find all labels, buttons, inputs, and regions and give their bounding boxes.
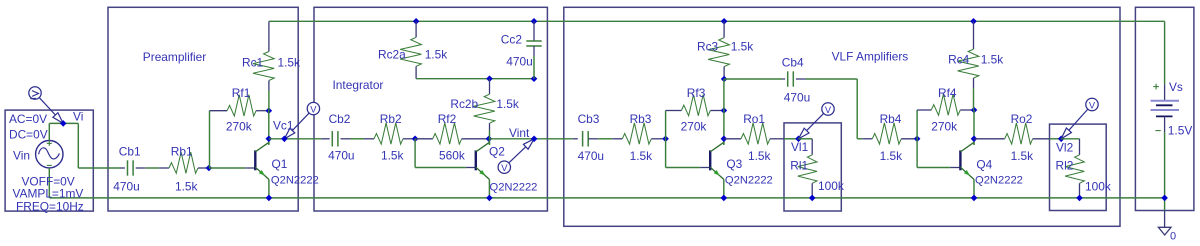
- wire Rf3 left leg: [665, 111, 667, 139]
- resistor Rc2b: [489, 79, 491, 95]
- wire Q4 base drop: [916, 139, 918, 168]
- wire Vcc top rail: [269, 20, 1165, 22]
- svg-text:Q2N2222: Q2N2222: [975, 174, 1023, 186]
- svg-text:Rc1: Rc1: [242, 56, 264, 70]
- svg-text:Cb1: Cb1: [119, 145, 141, 159]
- junction node Vi: [60, 120, 67, 127]
- svg-text:Rf1: Rf1: [232, 86, 251, 100]
- junction node Vc1: [266, 136, 273, 143]
- svg-text:Rc2b: Rc2b: [450, 97, 478, 111]
- Vs minus mark: [1155, 130, 1160, 132]
- svg-text:DC=0V: DC=0V: [9, 128, 48, 142]
- svg-text:Cb3: Cb3: [578, 112, 600, 126]
- wire Cc2 bottom stem: [533, 56, 535, 79]
- svg-text:Cb4: Cb4: [782, 56, 804, 70]
- svg-text:Vl2: Vl2: [1056, 141, 1074, 155]
- wire ground bottom rail: [50, 197, 1165, 199]
- svg-text:100k: 100k: [818, 179, 844, 193]
- Vs plus mark: [1153, 86, 1159, 88]
- svg-text:470u: 470u: [113, 179, 139, 193]
- transistor Q3 Q2N2222: [709, 150, 711, 170]
- svg-text:1.5k: 1.5k: [981, 53, 1004, 67]
- wire Cb1 to Rb1: [146, 167, 159, 169]
- resistor Rb1: [159, 167, 169, 169]
- junction Q3 base node: [662, 136, 669, 143]
- wire collector line Q3: [723, 79, 725, 145]
- supply box: [1135, 7, 1194, 210]
- wire Vi to Cb1: [78, 167, 120, 169]
- svg-text:Rf3: Rf3: [687, 86, 706, 100]
- svg-text:Rl2: Rl2: [1056, 159, 1074, 173]
- resistor Rb3: [612, 138, 622, 140]
- svg-text:0: 0: [1170, 231, 1176, 243]
- svg-text:1.5k: 1.5k: [278, 56, 301, 70]
- wire Rf1 left leg: [209, 111, 211, 168]
- junction Ro2-collector: [971, 136, 978, 143]
- wire Q2 base drop: [414, 139, 416, 168]
- wire Q2 emitter to rail: [488, 179, 490, 198]
- junction Q1 base node: [206, 165, 213, 172]
- probe marker Vc1: [284, 113, 309, 139]
- svg-text:560k: 560k: [439, 149, 465, 163]
- svg-text:1.5k: 1.5k: [731, 40, 754, 54]
- svg-text:270k: 270k: [931, 120, 957, 134]
- svg-text:Cb2: Cb2: [329, 112, 351, 126]
- Vin minus mark: [47, 164, 52, 166]
- capacitor Cb2: [321, 138, 329, 140]
- VLF Amplifiers box: [564, 7, 1120, 226]
- svg-text:V: V: [501, 163, 508, 173]
- svg-text:Rb4: Rb4: [880, 112, 902, 126]
- svg-text:Rc2a: Rc2a: [378, 48, 406, 62]
- wire Cb3 to Rb3: [598, 138, 612, 140]
- wire collector node Vc1: [268, 111, 270, 145]
- svg-text:1.5k: 1.5k: [175, 179, 198, 193]
- wire Q1 collector stub: [268, 142, 270, 145]
- Vin plus mark: [47, 142, 52, 144]
- svg-text:FREQ=10Hz: FREQ=10Hz: [16, 199, 84, 213]
- probe marker Vl1: [799, 113, 824, 138]
- svg-text:470u: 470u: [784, 90, 810, 104]
- junction Rf1-collector: [266, 107, 273, 114]
- svg-text:VLF Amplifiers: VLF Amplifiers: [832, 49, 909, 63]
- svg-text:1.5k: 1.5k: [748, 149, 771, 163]
- junction Rc2b top: [486, 75, 493, 82]
- resistor Rc3: [721, 18, 728, 25]
- svg-text:1.5k: 1.5k: [496, 97, 519, 111]
- ground 0 symbol: [1164, 211, 1166, 228]
- wire Q3 base drop: [665, 139, 667, 168]
- battery Vs: [1164, 84, 1166, 100]
- junction node Vl2: [1058, 136, 1065, 143]
- probe marker Vl2: [1061, 109, 1088, 139]
- capacitor Cc2: [531, 18, 538, 25]
- resistor Rb4: [862, 138, 872, 140]
- wire Rc3 tap to Cb4: [724, 78, 782, 80]
- wire Ro1 into VL1 box: [784, 138, 799, 140]
- wire base node to Q1: [209, 167, 245, 169]
- load box VL1: [784, 123, 841, 211]
- svg-text:270k: 270k: [226, 120, 252, 134]
- svg-text:Cc2: Cc2: [501, 33, 523, 47]
- svg-text:AC=0V: AC=0V: [9, 112, 47, 126]
- svg-text:1.5k: 1.5k: [630, 149, 653, 163]
- junction Rf4-collector: [971, 107, 978, 114]
- transistor Q2 Q2N2222: [475, 150, 477, 170]
- junction Q2 emitter-rail: [486, 195, 493, 202]
- svg-text:Preamplifier: Preamplifier: [143, 50, 206, 64]
- wire Q4 collector stub: [973, 142, 975, 145]
- svg-text:VAMPL=1mV: VAMPL=1mV: [13, 187, 84, 201]
- junction Vc1 probe attach: [281, 136, 288, 143]
- svg-text:Rl1: Rl1: [790, 158, 808, 172]
- junction Vint probe attach: [531, 136, 538, 143]
- wire Ro2 into VL2 box: [1050, 138, 1062, 140]
- wire Vc1 to Cb2: [269, 138, 322, 140]
- svg-text:Ro1: Ro1: [743, 112, 765, 126]
- wire node Vi horizontal: [49, 122, 78, 124]
- svg-text:Q2N2222: Q2N2222: [490, 182, 538, 194]
- load box VL2: [1050, 124, 1107, 210]
- wire Q3 collector stub: [723, 142, 725, 145]
- junction Rc3 bottom / Cb4 tap: [721, 76, 728, 83]
- svg-text:Rc3: Rc3: [697, 40, 719, 54]
- junction Ro1-collector: [721, 136, 728, 143]
- resistor Rf3: [666, 110, 682, 112]
- wire Rf4 left leg: [916, 110, 918, 139]
- wire Cb4 to stage4: [806, 78, 857, 80]
- wire Vint to Cb3: [489, 138, 573, 140]
- svg-text:1.5V: 1.5V: [1168, 124, 1193, 138]
- svg-text:Q3: Q3: [726, 157, 742, 171]
- junction Cc2 bottom: [531, 75, 538, 82]
- resistor Rf2: [415, 138, 433, 140]
- junction Rf2-collector: [486, 136, 493, 143]
- resistor Rf4: [917, 109, 931, 111]
- resistor Rc1: [268, 21, 270, 51]
- transistor Q1 Q2N2222: [254, 150, 256, 170]
- svg-text:470u: 470u: [506, 55, 532, 69]
- svg-text:V: V: [310, 105, 317, 115]
- svg-text:Vl1: Vl1: [791, 140, 809, 154]
- resistor Rl2: [1079, 139, 1081, 155]
- wire Vl1 to Rl1: [799, 138, 813, 140]
- svg-text:Rb1: Rb1: [171, 145, 193, 159]
- source block box: [5, 110, 93, 211]
- wire Vin bottom stem: [48, 168, 50, 198]
- svg-text:Q2N2222: Q2N2222: [725, 174, 773, 186]
- svg-text:Vs: Vs: [1169, 80, 1183, 94]
- wire Rc4 to collector: [973, 88, 975, 110]
- resistor Rc2a: [413, 18, 420, 25]
- wire node Vi vertical drop: [77, 123, 79, 168]
- junction Q2 base node: [412, 136, 419, 143]
- junction Rl2-rail: [1076, 195, 1083, 202]
- junction Q4 base node: [914, 136, 921, 143]
- junction Q4 emitter-rail: [971, 195, 978, 202]
- source Vin sine symbol: [36, 141, 63, 168]
- svg-text:470u: 470u: [578, 149, 604, 163]
- wire Q2 collector stub: [488, 142, 490, 145]
- wire Q3 emitter to rail: [723, 179, 725, 198]
- svg-text:Q2: Q2: [489, 144, 505, 158]
- wire Vs to ground rail: [1164, 132, 1166, 211]
- wire Rc2a to Rc2b/Cc2: [416, 78, 534, 80]
- svg-text:Ro2: Ro2: [1011, 112, 1033, 126]
- wire Rc1 to collector: [268, 91, 270, 111]
- svg-text:Vc1: Vc1: [273, 119, 294, 133]
- svg-text:Rc4: Rc4: [948, 53, 970, 67]
- wire stage4 feed drop: [856, 79, 858, 139]
- resistor Ro2: [974, 138, 1005, 140]
- probe marker Vint: [509, 139, 534, 163]
- svg-text:Rf4: Rf4: [938, 86, 957, 100]
- junction Q3 emitter-rail: [721, 195, 728, 202]
- transistor Q4 Q2N2222: [959, 150, 961, 170]
- svg-text:Q4: Q4: [976, 158, 992, 172]
- junction node Vl1: [795, 136, 802, 143]
- junction Q1 emitter-rail: [266, 195, 273, 202]
- svg-text:1.5k: 1.5k: [1011, 149, 1034, 163]
- svg-text:V: V: [1089, 100, 1096, 110]
- wire Cb2 to Rb2: [351, 138, 365, 140]
- svg-text:Rf2: Rf2: [438, 112, 457, 126]
- junction Rl1-rail: [809, 195, 816, 202]
- svg-text:Q2N2222: Q2N2222: [271, 175, 319, 187]
- svg-text:Rb3: Rb3: [630, 112, 652, 126]
- svg-text:100k: 100k: [1085, 179, 1111, 193]
- capacitor Cb3: [573, 138, 578, 140]
- svg-text:1.5k: 1.5k: [381, 149, 404, 163]
- junction Vs-rail: [1161, 195, 1168, 202]
- resistor Ro1: [724, 138, 741, 140]
- svg-text:1.5k: 1.5k: [425, 48, 448, 62]
- wire Vin top stem: [48, 123, 50, 140]
- wire Vl2 to Rl2: [1061, 138, 1079, 140]
- svg-text:Vi: Vi: [73, 110, 83, 124]
- capacitor Cb1: [120, 167, 125, 169]
- wire collector line Q4: [973, 110, 975, 145]
- resistor Rf1: [210, 110, 228, 112]
- Preamplifier box: [108, 7, 298, 211]
- wire Rc2b to collector: [489, 130, 491, 145]
- svg-text:Rb2: Rb2: [380, 112, 402, 126]
- wire Vcc rail to Vs: [1164, 21, 1166, 84]
- resistor Rl1: [811, 139, 813, 155]
- junction Rf3-collector: [721, 107, 728, 114]
- svg-text:Vint: Vint: [509, 126, 530, 140]
- probe marker Vi: [39, 98, 63, 124]
- svg-text:Vin: Vin: [13, 149, 30, 163]
- svg-text:470u: 470u: [328, 149, 354, 163]
- svg-text:Q1: Q1: [272, 157, 288, 171]
- resistor Rb2: [364, 138, 374, 140]
- svg-text:V: V: [825, 105, 832, 115]
- svg-text:1.5k: 1.5k: [880, 149, 903, 163]
- wire Q1 emitter to rail: [268, 179, 270, 198]
- wire Q4 emitter to rail: [973, 179, 975, 198]
- capacitor Cb4: [782, 78, 785, 80]
- Integrator box: [314, 7, 547, 211]
- svg-text:270k: 270k: [681, 120, 707, 134]
- svg-text:Integrator: Integrator: [333, 78, 384, 92]
- resistor Rc4: [970, 18, 977, 25]
